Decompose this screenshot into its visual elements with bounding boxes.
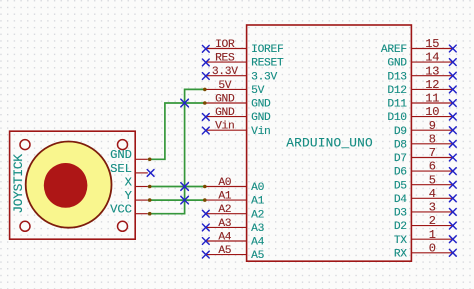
svg-text:X: X xyxy=(125,175,133,189)
joystick outer ring xyxy=(26,142,112,228)
svg-text:A5: A5 xyxy=(218,245,231,257)
svg-text:7: 7 xyxy=(429,146,436,160)
arduino right pin D6 xyxy=(411,170,452,172)
svg-text:D13: D13 xyxy=(387,71,407,83)
joystick pin X xyxy=(135,186,148,188)
svg-text:5V: 5V xyxy=(251,85,264,97)
joystick pin SEL xyxy=(135,172,148,174)
svg-text:8: 8 xyxy=(429,132,436,146)
crossing X on 5V vertical wire xyxy=(181,196,189,204)
svg-text:D2: D2 xyxy=(394,221,407,233)
no-connect X xyxy=(449,86,456,93)
pin-end junction dot xyxy=(203,198,207,202)
svg-text:D6: D6 xyxy=(394,167,407,179)
pin-end junction dot xyxy=(203,88,207,92)
svg-text:1: 1 xyxy=(429,228,436,242)
joystick body xyxy=(10,131,136,239)
no-connect X xyxy=(202,224,209,231)
svg-text:12: 12 xyxy=(425,78,439,92)
svg-text:A1: A1 xyxy=(218,191,231,203)
svg-text:SEL: SEL xyxy=(110,162,132,176)
joystick mounting hole xyxy=(118,140,128,150)
no-connect X xyxy=(449,195,456,202)
no-connect X xyxy=(202,251,209,258)
svg-text:Y: Y xyxy=(125,189,133,203)
wire net Y: joystick Y to arduino A1 xyxy=(148,199,206,201)
arduino ARDUINO_UNO body xyxy=(247,25,412,261)
svg-text:TX: TX xyxy=(394,235,407,247)
svg-text:D4: D4 xyxy=(394,194,407,206)
no-connect X xyxy=(449,222,456,229)
no-connect X xyxy=(202,73,209,80)
svg-text:3.3V: 3.3V xyxy=(212,66,238,78)
arduino right pin RX xyxy=(411,252,452,254)
svg-text:A5: A5 xyxy=(251,250,264,262)
crossing X on 5V vertical wire xyxy=(181,183,189,191)
joystick mounting hole xyxy=(20,140,30,150)
svg-text:GND: GND xyxy=(387,58,407,70)
no-connect X xyxy=(202,127,209,134)
svg-text:A0: A0 xyxy=(218,177,231,189)
svg-text:RESET: RESET xyxy=(251,58,284,70)
svg-text:AREF: AREF xyxy=(381,44,407,56)
svg-text:6: 6 xyxy=(429,160,436,174)
arduino left pin RESET xyxy=(206,61,247,63)
pin-end junction dot xyxy=(148,158,152,162)
svg-text:A3: A3 xyxy=(218,218,231,230)
svg-text:VCC: VCC xyxy=(110,203,132,217)
svg-text:3: 3 xyxy=(429,201,436,215)
wire net GND: arduino GND pin to joystick GND xyxy=(148,103,206,159)
svg-text:D11: D11 xyxy=(387,99,407,111)
svg-text:A3: A3 xyxy=(251,223,264,235)
svg-text:A4: A4 xyxy=(251,237,264,249)
no-connect X xyxy=(449,72,456,79)
joystick mounting hole xyxy=(118,221,128,231)
svg-text:D12: D12 xyxy=(387,85,406,97)
joystick mounting hole xyxy=(20,221,30,231)
arduino right pin D3 xyxy=(411,211,452,213)
svg-text:JOYSTICK: JOYSTICK xyxy=(11,154,26,214)
svg-text:A0: A0 xyxy=(251,182,264,194)
pin-end junction dot xyxy=(148,185,152,189)
svg-text:D3: D3 xyxy=(394,208,407,220)
joystick pin GND xyxy=(135,158,148,160)
arduino left pin GND xyxy=(206,116,247,118)
no-connect X xyxy=(449,154,456,161)
arduino right pin D13 xyxy=(411,75,452,77)
no-connect X xyxy=(449,45,456,52)
joystick pin VCC xyxy=(135,213,148,215)
arduino right pin D12 xyxy=(411,88,452,90)
wire net X: joystick X to arduino A0 xyxy=(148,186,206,188)
no-connect X xyxy=(202,210,209,217)
arduino left pin GND xyxy=(206,102,247,104)
pin-end junction dot xyxy=(203,185,207,189)
no-connect X xyxy=(202,45,209,52)
arduino left pin A2 xyxy=(206,213,247,215)
arduino right pin D8 xyxy=(411,143,452,145)
arduino right pin D7 xyxy=(411,157,452,159)
svg-text:3.3V: 3.3V xyxy=(251,71,277,83)
arduino left pin IOREF xyxy=(206,48,247,50)
no-connect X xyxy=(449,140,456,147)
arduino right pin D10 xyxy=(411,116,452,118)
svg-text:D5: D5 xyxy=(394,180,407,192)
svg-text:D9: D9 xyxy=(394,126,407,138)
svg-text:GND: GND xyxy=(215,94,235,106)
svg-text:2: 2 xyxy=(429,214,436,228)
no-connect X xyxy=(449,181,456,188)
joystick knob xyxy=(44,163,88,208)
svg-text:A2: A2 xyxy=(251,209,264,221)
arduino right pin D9 xyxy=(411,129,452,131)
arduino left pin A1 xyxy=(206,199,247,201)
no-connect X xyxy=(449,236,456,243)
pin-end junction dot xyxy=(148,212,152,216)
svg-text:A2: A2 xyxy=(218,204,231,216)
svg-text:IOREF: IOREF xyxy=(251,44,283,56)
svg-text:10: 10 xyxy=(425,105,439,119)
svg-text:IOR: IOR xyxy=(215,39,235,51)
no-connect X xyxy=(449,59,456,66)
svg-text:5: 5 xyxy=(429,173,436,187)
arduino right pin D4 xyxy=(411,197,452,199)
svg-text:15: 15 xyxy=(425,37,439,51)
arduino right pin D5 xyxy=(411,184,452,186)
arduino right pin AREF xyxy=(411,48,452,50)
joystick pin Y xyxy=(135,199,148,201)
svg-text:GND: GND xyxy=(251,112,271,124)
svg-text:0: 0 xyxy=(429,241,436,255)
arduino left pin Vin xyxy=(206,129,247,131)
svg-text:GND: GND xyxy=(110,148,132,162)
arduino right pin TX xyxy=(411,238,452,240)
svg-text:D8: D8 xyxy=(394,139,407,151)
no-connect X xyxy=(449,209,456,216)
arduino left pin A3 xyxy=(206,226,247,228)
arduino left pin A0 xyxy=(206,186,247,188)
svg-text:11: 11 xyxy=(425,92,439,106)
no-connect X joystick SEL xyxy=(147,170,154,177)
no-connect X xyxy=(449,249,456,256)
svg-text:9: 9 xyxy=(429,119,436,133)
arduino left pin 3.3V xyxy=(206,75,247,77)
no-connect X xyxy=(202,238,209,245)
svg-text:D7: D7 xyxy=(394,153,407,165)
arduino right pin GND xyxy=(411,61,452,63)
arduino right pin D11 xyxy=(411,102,452,104)
svg-text:RX: RX xyxy=(394,248,407,260)
svg-text:RES: RES xyxy=(215,53,235,65)
crossing X on 5V vertical wire xyxy=(181,99,189,107)
no-connect X xyxy=(449,127,456,134)
svg-text:4: 4 xyxy=(429,187,436,201)
svg-text:GND: GND xyxy=(251,99,271,111)
svg-text:GND: GND xyxy=(215,107,235,119)
svg-text:5V: 5V xyxy=(218,80,231,92)
svg-text:Vin: Vin xyxy=(251,126,270,138)
no-connect X xyxy=(202,114,209,121)
svg-text:A1: A1 xyxy=(251,196,264,208)
wire net 5V: arduino 5V pin to joystick VCC xyxy=(148,89,206,213)
no-connect X xyxy=(202,59,209,66)
no-connect X xyxy=(449,113,456,120)
arduino right pin D2 xyxy=(411,225,452,227)
svg-text:13: 13 xyxy=(425,64,439,78)
pin-end junction dot xyxy=(203,101,207,105)
no-connect X xyxy=(449,168,456,175)
svg-text:Vin: Vin xyxy=(215,121,234,133)
svg-text:14: 14 xyxy=(425,51,439,65)
pin-end junction dot xyxy=(148,198,152,202)
no-connect X xyxy=(449,100,456,107)
arduino left pin 5V xyxy=(206,88,247,90)
arduino left pin A5 xyxy=(206,254,247,256)
svg-text:D10: D10 xyxy=(387,112,407,124)
svg-text:A4: A4 xyxy=(218,232,231,244)
svg-text:ARDUINO_UNO: ARDUINO_UNO xyxy=(286,135,373,150)
arduino left pin A4 xyxy=(206,240,247,242)
